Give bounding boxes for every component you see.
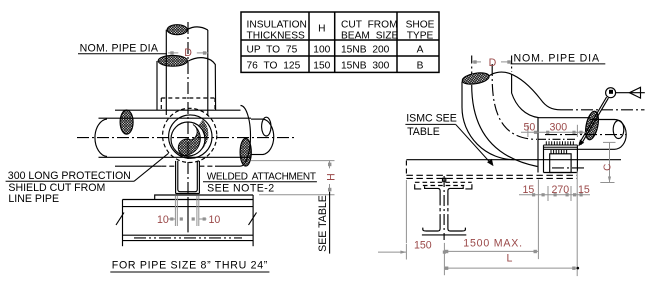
svg-text:BEAM SIZE: BEAM SIZE	[341, 31, 399, 42]
svg-text:LINE PIPE: LINE PIPE	[8, 193, 59, 205]
svg-text:UP TO 75: UP TO 75	[247, 45, 298, 56]
svg-text:CUT FROM: CUT FROM	[341, 20, 398, 31]
svg-text:150: 150	[414, 240, 432, 252]
svg-text:SHOE: SHOE	[406, 20, 435, 31]
svg-text:D: D	[489, 57, 497, 69]
svg-text:NOM. PIPE DIA: NOM. PIPE DIA	[514, 52, 600, 64]
svg-text:A: A	[417, 45, 424, 56]
svg-text:15: 15	[523, 184, 535, 196]
svg-text:300: 300	[550, 121, 568, 133]
svg-text:H: H	[318, 24, 325, 35]
svg-text:76 TO 125: 76 TO 125	[247, 61, 301, 72]
svg-text:100: 100	[313, 45, 330, 56]
svg-text:15: 15	[578, 184, 590, 196]
svg-text:NOM. PIPE DIA: NOM. PIPE DIA	[80, 42, 159, 54]
svg-text:WELDED ATTACHMENT: WELDED ATTACHMENT	[207, 172, 316, 183]
svg-text:L: L	[507, 253, 513, 265]
svg-text:15NB 300: 15NB 300	[341, 61, 390, 72]
svg-text:C: C	[603, 164, 614, 171]
svg-text:10: 10	[209, 214, 221, 226]
svg-text:TYPE: TYPE	[407, 31, 434, 42]
svg-text:15NB 200: 15NB 200	[341, 45, 390, 56]
svg-text:FOR PIPE SIZE 8” THRU 24”: FOR PIPE SIZE 8” THRU 24”	[112, 260, 268, 272]
svg-text:D: D	[184, 47, 192, 59]
svg-text:ISMC SEE: ISMC SEE	[406, 112, 457, 124]
svg-text:INSULATION: INSULATION	[247, 20, 307, 31]
svg-text:B: B	[417, 61, 424, 72]
svg-text:1500 MAX.: 1500 MAX.	[463, 238, 523, 250]
svg-text:270: 270	[552, 184, 570, 196]
svg-text:10: 10	[157, 214, 169, 226]
svg-text:SEE TABLE: SEE TABLE	[317, 195, 329, 252]
svg-text:H: H	[326, 173, 338, 181]
svg-text:300 LONG PROTECTION: 300 LONG PROTECTION	[8, 170, 131, 182]
svg-text:150: 150	[313, 61, 330, 72]
svg-text:50: 50	[524, 121, 536, 133]
svg-text:TABLE: TABLE	[407, 126, 440, 138]
svg-text:THICKNESS: THICKNESS	[247, 31, 306, 42]
svg-text:SEE NOTE-2: SEE NOTE-2	[207, 182, 275, 194]
